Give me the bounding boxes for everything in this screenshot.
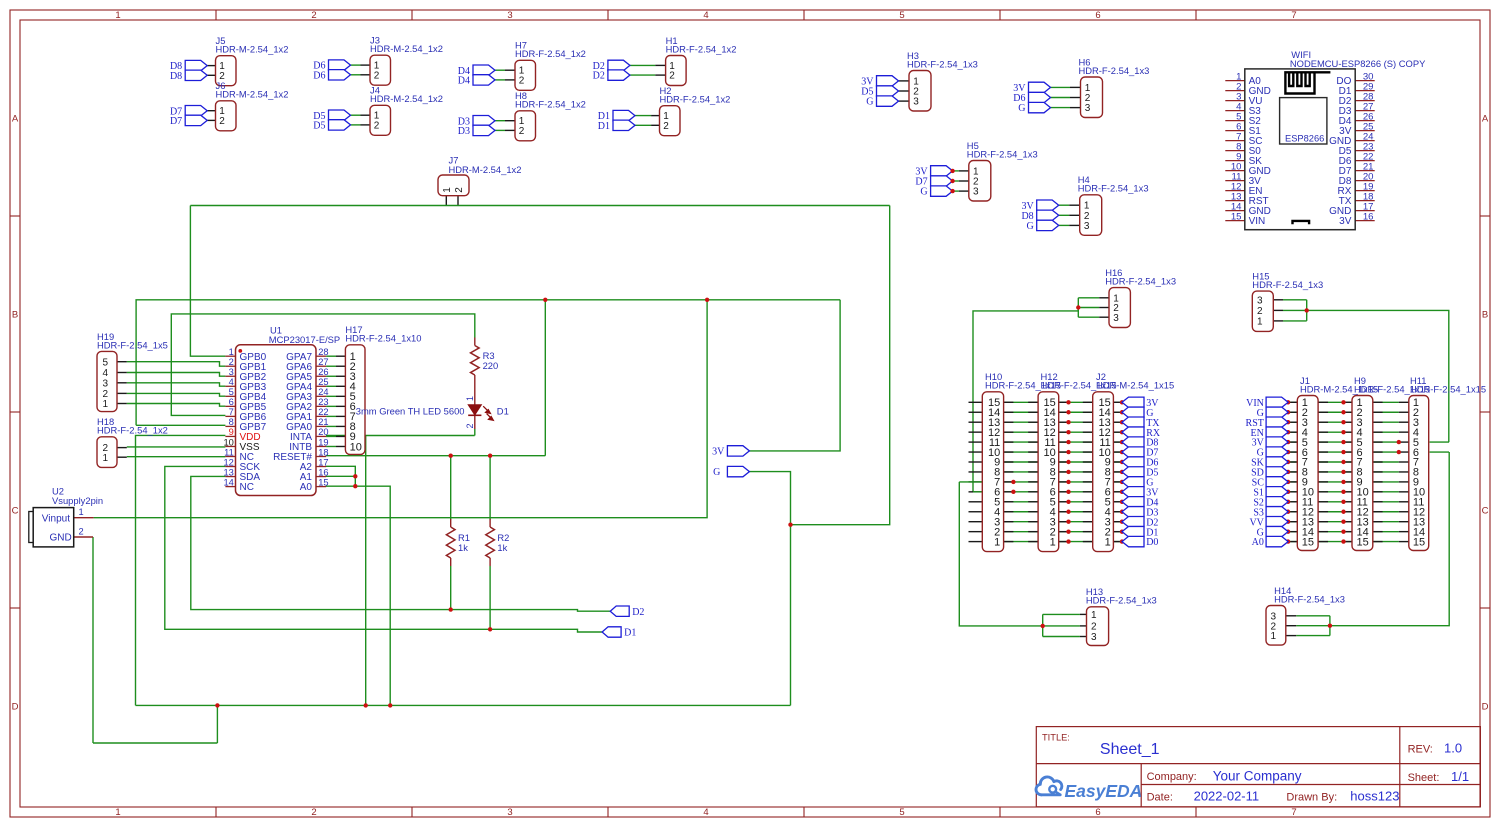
svg-text:4: 4 <box>703 807 708 818</box>
svg-text:1: 1 <box>229 347 234 357</box>
svg-text:Sheet:: Sheet: <box>1408 772 1440 784</box>
wire G flag link <box>749 472 790 706</box>
svg-text:3: 3 <box>1085 103 1091 114</box>
svg-text:HDR-F-2.54_1x10: HDR-F-2.54_1x10 <box>345 333 421 344</box>
wire VDD down <box>136 435 226 705</box>
svg-text:3mm Green TH LED 5600: 3mm Green TH LED 5600 <box>356 406 465 417</box>
junction <box>950 169 954 173</box>
svg-text:Vinput: Vinput <box>42 514 70 525</box>
svg-text:1/1: 1/1 <box>1451 769 1469 784</box>
wire H3 pin2 <box>899 90 910 92</box>
svg-text:2: 2 <box>229 357 234 367</box>
net flag D6 <box>1029 92 1051 102</box>
connector H1 <box>666 35 737 86</box>
junction <box>1041 624 1045 628</box>
wire H19 pin4 <box>127 373 226 377</box>
connector H19 <box>97 331 168 412</box>
svg-text:2: 2 <box>519 126 525 137</box>
net flag D4 <box>473 75 495 85</box>
svg-text:3: 3 <box>1091 632 1097 643</box>
net flag 3V <box>727 446 749 456</box>
wire H15 bracket <box>1283 300 1449 442</box>
wire group2 rows <box>1288 402 1449 541</box>
wire H16 bracket <box>973 298 1099 492</box>
wire A1 <box>326 475 355 477</box>
svg-text:hoss123: hoss123 <box>1350 789 1399 804</box>
svg-text:Company:: Company: <box>1147 771 1197 783</box>
svg-text:1.0: 1.0 <box>1444 741 1462 756</box>
svg-text:2: 2 <box>663 121 669 132</box>
svg-text:7: 7 <box>229 407 234 417</box>
svg-text:HDR-F-2.54_1x3: HDR-F-2.54_1x3 <box>1086 595 1157 606</box>
svg-text:Your Company: Your Company <box>1213 769 1302 784</box>
svg-text:G: G <box>1018 103 1025 114</box>
connector H4 <box>1078 174 1149 235</box>
net flag D1 <box>613 110 635 120</box>
resistor R2 <box>486 519 510 566</box>
svg-text:5: 5 <box>103 357 109 368</box>
wire J5 pin2 <box>207 74 215 76</box>
svg-text:3: 3 <box>1113 313 1119 324</box>
svg-text:15: 15 <box>1231 211 1242 222</box>
svg-text:28: 28 <box>318 347 328 357</box>
net flags group2 <box>1246 397 1289 548</box>
svg-text:NC: NC <box>240 482 254 493</box>
connector H10 <box>982 371 1061 551</box>
svg-text:TITLE:: TITLE: <box>1042 733 1070 743</box>
wire H5 pin2 <box>953 180 959 182</box>
junction <box>950 189 954 193</box>
svg-text:14: 14 <box>223 477 233 487</box>
net flag D2 <box>608 70 630 80</box>
net flag D1 output <box>602 627 621 637</box>
svg-text:HDR-F-2.54_1x2: HDR-F-2.54_1x2 <box>97 425 168 436</box>
svg-text:D2: D2 <box>632 607 644 618</box>
svg-text:4: 4 <box>229 377 234 387</box>
svg-text:21: 21 <box>318 417 328 427</box>
svg-text:1: 1 <box>1271 631 1277 642</box>
wire J3 pin1 <box>351 64 361 66</box>
connector H7 <box>515 40 586 91</box>
svg-text:1: 1 <box>115 10 120 21</box>
wire A0 <box>326 486 390 705</box>
wire H14 bracket <box>1296 452 1449 636</box>
svg-text:Drawn By:: Drawn By: <box>1286 791 1337 803</box>
svg-text:19: 19 <box>318 437 328 447</box>
connector H13 <box>1080 586 1157 645</box>
svg-text:Date:: Date: <box>1147 791 1173 803</box>
svg-text:2: 2 <box>311 10 316 21</box>
net flag G <box>727 466 749 476</box>
net flag G <box>1037 220 1059 230</box>
svg-text:16: 16 <box>1363 211 1374 222</box>
svg-text:D5: D5 <box>313 121 325 132</box>
svg-text:HDR-M-2.54_1x15: HDR-M-2.54_1x15 <box>1096 380 1174 391</box>
svg-text:MCP23017-E/SP: MCP23017-E/SP <box>269 334 340 345</box>
net flag D5 <box>329 120 351 130</box>
svg-text:8: 8 <box>229 417 234 427</box>
svg-text:5: 5 <box>899 10 904 21</box>
wire H2 pin2 <box>635 124 651 126</box>
connector J6 <box>216 80 289 131</box>
connector H15 <box>1252 271 1323 332</box>
connector H2 <box>660 85 731 136</box>
svg-text:HDR-F-2.54_1x2: HDR-F-2.54_1x2 <box>515 99 586 110</box>
wire INTA to LED <box>326 435 475 437</box>
svg-text:2: 2 <box>79 527 84 537</box>
svg-text:HDR-F-2.54_1x3: HDR-F-2.54_1x3 <box>1079 65 1150 76</box>
svg-text:3: 3 <box>507 10 512 21</box>
wire SDA to D2 <box>191 476 610 611</box>
svg-text:3: 3 <box>973 187 979 198</box>
svg-text:D0: D0 <box>1146 537 1158 548</box>
connector J3 <box>370 35 443 86</box>
resistor R1 <box>446 519 470 566</box>
svg-text:G: G <box>866 97 873 108</box>
net flag 3V <box>1037 200 1059 210</box>
svg-text:24: 24 <box>318 387 328 397</box>
EasyEDA logo <box>1036 777 1142 801</box>
svg-text:2: 2 <box>1091 622 1097 633</box>
svg-text:2: 2 <box>374 70 380 81</box>
net flag D5 <box>329 110 351 120</box>
svg-text:HDR-M-2.54_1x2: HDR-M-2.54_1x2 <box>449 164 522 175</box>
svg-text:3: 3 <box>913 97 919 108</box>
net flag D8 <box>1037 210 1059 220</box>
connector H11 <box>1409 375 1486 551</box>
wire Vinput rail <box>94 300 708 518</box>
svg-text:HDR-F-2.54_1x3: HDR-F-2.54_1x3 <box>907 58 978 69</box>
svg-text:1: 1 <box>442 187 453 193</box>
wire SCK to D1 <box>165 466 602 632</box>
svg-text:7: 7 <box>1291 807 1296 818</box>
wire INTA branch down <box>365 436 367 706</box>
svg-text:2: 2 <box>465 423 475 428</box>
wire J6 pin1 <box>207 110 215 112</box>
svg-text:6: 6 <box>229 397 234 407</box>
wire H18.2 to VSS <box>127 446 226 448</box>
svg-text:B: B <box>1482 309 1488 320</box>
junction <box>1076 305 1080 309</box>
wire H2 pin1 <box>635 115 651 117</box>
wire U2 GND path <box>92 537 94 743</box>
svg-text:7: 7 <box>1291 10 1296 21</box>
svg-text:1: 1 <box>1257 317 1263 328</box>
svg-text:HDR-F-2.54_1x3: HDR-F-2.54_1x3 <box>1252 279 1323 290</box>
wire J4 pin2 <box>351 124 361 126</box>
net flag D7 <box>185 106 207 116</box>
svg-text:B: B <box>12 309 18 320</box>
wire J3 pin2 <box>351 74 361 76</box>
svg-text:3: 3 <box>1257 295 1263 306</box>
svg-text:2022-02-11: 2022-02-11 <box>1194 789 1260 804</box>
wire H1 pin1 <box>630 64 655 66</box>
LED D1 <box>356 396 509 436</box>
svg-text:REV:: REV: <box>1408 743 1433 755</box>
svg-text:D1: D1 <box>598 121 610 132</box>
svg-text:1: 1 <box>1050 536 1056 548</box>
net flag G <box>1029 102 1051 112</box>
net flags group1 <box>1122 397 1161 548</box>
wire H13 bracket <box>959 482 1080 637</box>
svg-text:15: 15 <box>1302 536 1314 548</box>
junction dots group2 <box>1286 400 1401 544</box>
connector J5 <box>216 35 289 86</box>
connector H16 <box>1099 267 1176 328</box>
svg-text:HDR-M-2.54_1x2: HDR-M-2.54_1x2 <box>370 93 443 104</box>
net flag D2 <box>608 60 630 70</box>
wire 3V flag link <box>749 300 840 451</box>
svg-text:13: 13 <box>223 467 233 477</box>
svg-text:1k: 1k <box>497 542 507 553</box>
svg-text:23: 23 <box>318 397 328 407</box>
net flag D8 <box>185 60 207 70</box>
connector H12 <box>1038 371 1116 551</box>
svg-text:22: 22 <box>318 407 328 417</box>
wire H6 pin2 <box>1051 97 1071 99</box>
wire group1 rows <box>959 402 1122 541</box>
svg-text:9: 9 <box>229 427 234 437</box>
svg-text:3V: 3V <box>1339 216 1352 227</box>
svg-text:4: 4 <box>703 10 708 21</box>
svg-text:1: 1 <box>103 453 109 464</box>
wire J5 pin1 <box>207 65 215 67</box>
svg-text:15: 15 <box>318 477 328 487</box>
wire J7 to net <box>445 196 447 206</box>
svg-text:D3: D3 <box>458 126 470 137</box>
svg-text:2: 2 <box>669 71 675 82</box>
wire J4 pin1 <box>351 114 361 116</box>
svg-text:D6: D6 <box>313 70 325 81</box>
svg-text:A0: A0 <box>1252 537 1264 548</box>
svg-text:EasyEDA: EasyEDA <box>1065 781 1143 801</box>
svg-text:1: 1 <box>115 807 120 818</box>
net flag D3 <box>473 116 495 126</box>
svg-text:11: 11 <box>224 447 234 457</box>
wire H19 pin5 <box>127 362 226 367</box>
svg-text:26: 26 <box>318 367 328 377</box>
svg-text:1: 1 <box>994 536 1000 548</box>
wire GPB7 stub link <box>136 424 225 426</box>
svg-text:12: 12 <box>223 457 233 467</box>
wire RESET# rail <box>326 455 545 457</box>
connector H17 <box>345 324 421 454</box>
svg-text:6: 6 <box>1095 10 1100 21</box>
wire H3 pin1 <box>899 80 910 82</box>
wire H6 pin1 <box>1051 86 1071 88</box>
wire H8 pin2 <box>495 129 505 131</box>
svg-text:A: A <box>1482 113 1489 124</box>
net flag D4 <box>473 65 495 75</box>
svg-text:C: C <box>12 505 19 516</box>
net flag G <box>877 96 899 106</box>
svg-text:3: 3 <box>507 807 512 818</box>
svg-text:16: 16 <box>318 467 328 477</box>
svg-text:D8: D8 <box>170 71 182 82</box>
wire R1 bottom <box>450 566 452 610</box>
junction dots center <box>215 298 793 708</box>
net flag D7 <box>185 115 207 125</box>
power supply U2 <box>29 485 103 547</box>
connector J4 <box>370 85 443 136</box>
connector H18 <box>97 416 168 467</box>
connector J2 <box>1093 371 1174 551</box>
wire GPB6 to R3 <box>171 314 475 416</box>
wire bottom bus <box>136 704 791 706</box>
net flag D7 <box>931 176 953 186</box>
svg-text:HDR-M-2.54_1x2: HDR-M-2.54_1x2 <box>216 44 289 55</box>
wire GPB0 to J7 net <box>190 206 225 357</box>
wire U1-H17 row links <box>326 356 345 446</box>
svg-text:2: 2 <box>454 187 465 193</box>
svg-text:HDR-F-2.54_1x2: HDR-F-2.54_1x2 <box>515 48 586 59</box>
svg-text:C: C <box>1482 505 1489 516</box>
wire G net right <box>791 206 890 525</box>
svg-text:D2: D2 <box>593 71 605 82</box>
net flag D5 <box>877 86 899 96</box>
svg-text:15: 15 <box>1413 536 1425 548</box>
resistor R3 <box>471 338 499 406</box>
junction <box>950 179 954 183</box>
svg-text:G: G <box>1026 221 1033 232</box>
svg-text:D7: D7 <box>170 116 182 127</box>
svg-text:D1: D1 <box>497 406 509 417</box>
IC U1 MCP23017-E/SP <box>223 324 340 495</box>
wire H5 pin3 <box>953 190 959 192</box>
svg-text:1: 1 <box>1105 536 1111 548</box>
wire A2 <box>326 466 355 486</box>
svg-text:ESP8266: ESP8266 <box>1285 133 1324 143</box>
svg-text:Sheet_1: Sheet_1 <box>1100 741 1160 758</box>
svg-text:2: 2 <box>311 807 316 818</box>
wire H3 pin3 <box>899 100 910 102</box>
svg-text:HDR-F-2.54_1x15: HDR-F-2.54_1x15 <box>1410 383 1486 394</box>
svg-text:A0: A0 <box>300 482 313 493</box>
svg-text:3V: 3V <box>712 447 725 458</box>
svg-text:1: 1 <box>79 507 84 517</box>
svg-text:20: 20 <box>318 427 328 437</box>
wire H19 pin2 <box>127 393 226 396</box>
net flag D2 output <box>610 606 629 616</box>
wire H19 pin1 <box>127 404 226 407</box>
svg-text:HDR-F-2.54_1x2: HDR-F-2.54_1x2 <box>660 94 731 105</box>
svg-text:1: 1 <box>103 399 109 410</box>
svg-text:3: 3 <box>229 367 234 377</box>
svg-text:2: 2 <box>374 120 380 131</box>
connector H6 <box>1079 56 1150 117</box>
connector J1 <box>1297 375 1378 551</box>
wire R1 top <box>450 456 452 520</box>
connector J7 <box>438 155 521 196</box>
svg-text:HDR-M-2.54_1x2: HDR-M-2.54_1x2 <box>370 43 443 54</box>
title block <box>1036 727 1480 807</box>
svg-text:15: 15 <box>1357 536 1369 548</box>
net flag 3V <box>931 166 953 176</box>
svg-text:HDR-F-2.54_1x3: HDR-F-2.54_1x3 <box>1105 276 1176 287</box>
svg-text:HDR-F-2.54_1x5: HDR-F-2.54_1x5 <box>97 339 168 350</box>
svg-text:A: A <box>12 113 19 124</box>
net flag D1 <box>613 120 635 130</box>
net flag G <box>931 186 953 196</box>
net flag D8 <box>185 70 207 80</box>
svg-text:HDR-M-2.54_1x2: HDR-M-2.54_1x2 <box>216 89 289 100</box>
svg-text:D: D <box>12 701 19 712</box>
wire H19 pin3 <box>127 383 226 386</box>
svg-text:1: 1 <box>465 396 475 401</box>
wire H7 pin1 <box>495 69 505 71</box>
svg-text:3: 3 <box>1084 221 1090 232</box>
svg-text:2: 2 <box>219 116 225 127</box>
connector H3 <box>907 50 978 111</box>
svg-text:10: 10 <box>223 437 233 447</box>
net flag 3V <box>1029 82 1051 92</box>
svg-text:10: 10 <box>350 441 362 453</box>
junction <box>1328 624 1332 628</box>
svg-text:1k: 1k <box>458 542 468 553</box>
svg-text:GND: GND <box>50 533 72 544</box>
svg-text:3: 3 <box>103 378 109 389</box>
wire R2 top <box>489 456 491 520</box>
connector H14 <box>1266 585 1345 645</box>
wire H1 pin2 <box>630 74 655 76</box>
connector H9 <box>1352 375 1430 551</box>
wire H4 pin1 <box>1059 204 1070 206</box>
svg-text:HDR-F-2.54_1x3: HDR-F-2.54_1x3 <box>967 148 1038 159</box>
svg-text:27: 27 <box>318 357 328 367</box>
wire 3V top rail <box>136 300 840 426</box>
svg-text:Vsupply2pin: Vsupply2pin <box>52 495 103 506</box>
svg-text:6: 6 <box>1095 807 1100 818</box>
svg-text:1: 1 <box>1091 610 1097 621</box>
wire G net top <box>190 205 889 207</box>
wire H5 pin1 <box>953 170 959 172</box>
svg-text:HDR-F-2.54_1x3: HDR-F-2.54_1x3 <box>1078 183 1149 194</box>
junction <box>1305 308 1309 312</box>
wire H4 pin3 <box>1059 224 1070 226</box>
wire R2 bottom <box>489 566 491 629</box>
svg-text:NODEMCU-ESP8266 (S) COPY: NODEMCU-ESP8266 (S) COPY <box>1290 58 1426 69</box>
connector H8 <box>515 90 586 141</box>
svg-text:18: 18 <box>318 447 328 457</box>
svg-text:5: 5 <box>899 807 904 818</box>
svg-text:G: G <box>713 467 720 478</box>
connector H5 <box>967 140 1038 201</box>
net flag 3V <box>877 76 899 86</box>
svg-text:220: 220 <box>483 360 499 371</box>
svg-text:D: D <box>1482 701 1489 712</box>
wire VDD/RESET pullup vertical <box>544 300 546 456</box>
net flag D6 <box>329 70 351 80</box>
junction dots group1 <box>1011 400 1124 544</box>
svg-text:D4: D4 <box>458 76 470 87</box>
module WIFI NODEMCU-ESP8266 <box>1225 49 1426 230</box>
wire H8 pin1 <box>495 120 505 122</box>
svg-text:G: G <box>920 187 927 198</box>
svg-text:25: 25 <box>318 377 328 387</box>
wire H6 pin3 <box>1051 107 1071 109</box>
svg-text:HDR-F-2.54_1x3: HDR-F-2.54_1x3 <box>1274 593 1345 604</box>
svg-text:17: 17 <box>318 457 328 467</box>
wire J6 pin2 <box>207 119 215 121</box>
net flag D3 <box>473 125 495 135</box>
wire H7 pin2 <box>495 79 505 81</box>
svg-text:VIN: VIN <box>1249 216 1266 227</box>
wire H4 pin2 <box>1059 214 1070 216</box>
wire H18.1 to NC <box>127 456 226 458</box>
svg-text:2: 2 <box>519 75 525 86</box>
svg-text:D1: D1 <box>624 628 636 639</box>
svg-text:HDR-F-2.54_1x2: HDR-F-2.54_1x2 <box>666 43 737 54</box>
